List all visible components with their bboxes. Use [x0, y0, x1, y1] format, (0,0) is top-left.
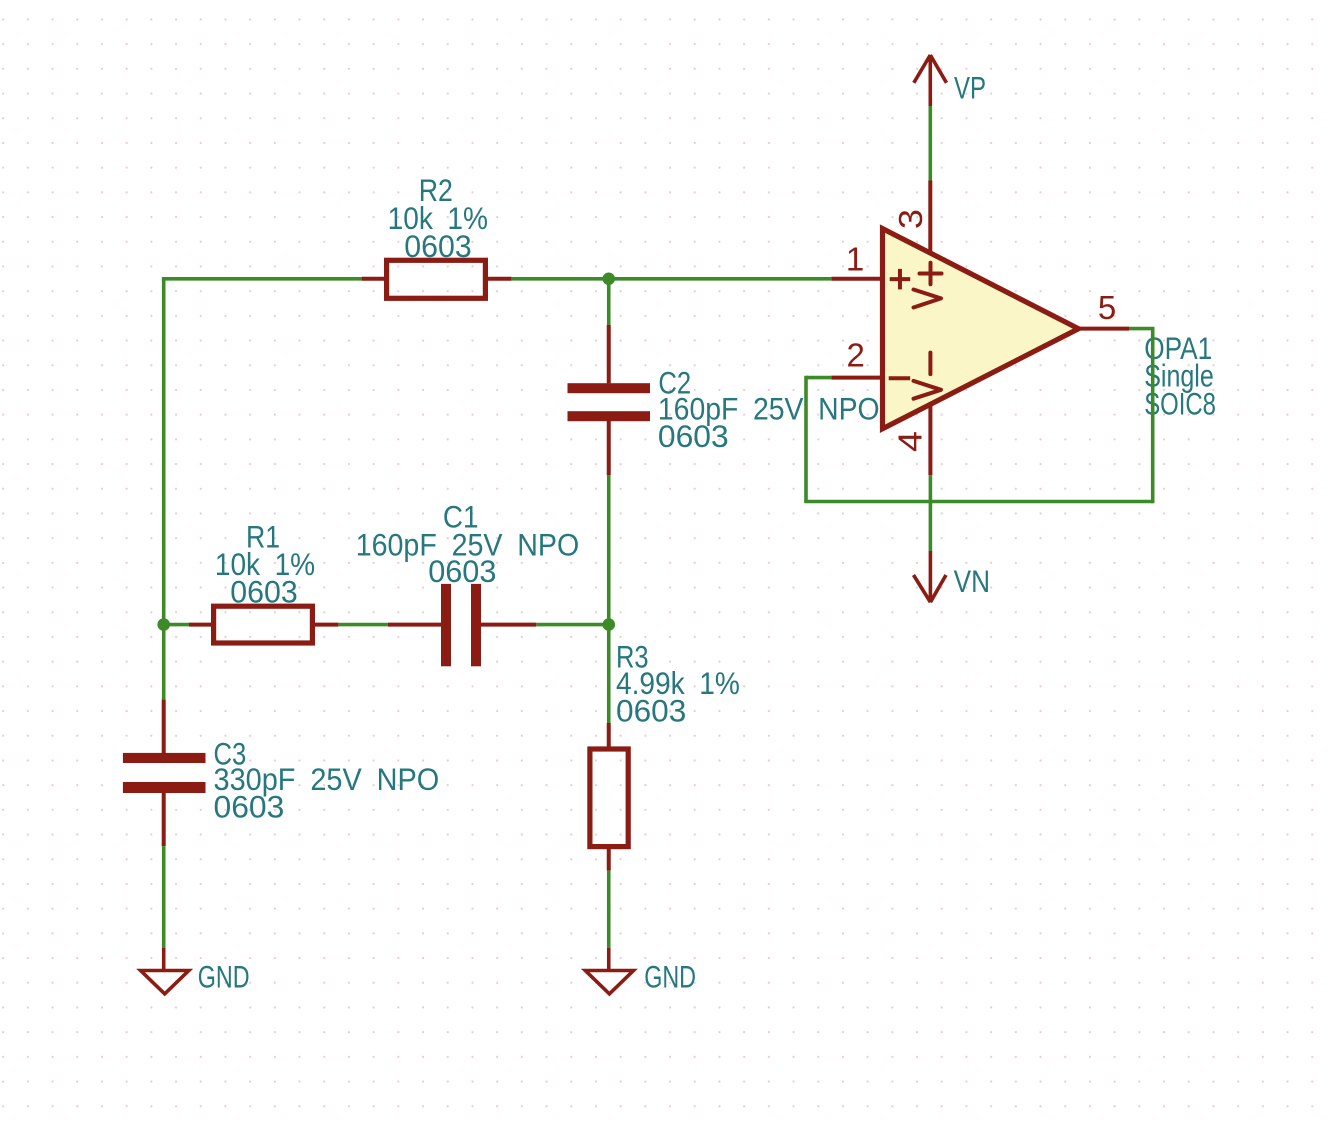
op-amp U1 minus input mark	[889, 376, 911, 380]
wire junction to C2 top	[607, 279, 611, 325]
wire R1 right to C1 left	[338, 623, 388, 627]
op-amp U1 pin 2 stub	[831, 376, 883, 380]
svg-text:GND: GND	[644, 958, 696, 994]
svg-text:GND: GND	[198, 958, 250, 994]
op-amp U1 V+ pin name	[914, 263, 942, 308]
op-amp U1 plus input mark	[890, 269, 911, 290]
power symbol VP	[914, 55, 947, 106]
op-amp U1 V- pin name	[914, 353, 942, 399]
svg-text:VP: VP	[954, 70, 986, 106]
wire junction to R1 left	[164, 623, 189, 627]
svg-text:SOIC8: SOIC8	[1144, 386, 1216, 422]
resistor R3	[590, 723, 628, 871]
op-amp U1 pin 1 stub	[831, 277, 883, 281]
power symbol VN	[914, 551, 947, 602]
capacitor C1	[441, 584, 481, 666]
resistor R2	[362, 260, 512, 298]
svg-text:1: 1	[846, 241, 864, 278]
capacitor C3	[123, 753, 206, 793]
wire C3 bottom to ground	[162, 846, 166, 948]
svg-text:0603: 0603	[214, 789, 285, 825]
op-amp U1 pin 3 stub	[928, 181, 932, 255]
junction middle node	[602, 618, 615, 631]
ground symbol left	[141, 948, 189, 994]
svg-text:4: 4	[892, 431, 929, 452]
wire VP to op-amp pin 3	[928, 106, 932, 181]
svg-text:5: 5	[1098, 289, 1116, 326]
ground symbol right	[585, 948, 633, 994]
svg-text:2: 2	[846, 337, 864, 374]
wire C1 right to junction	[536, 623, 608, 627]
wire C2 bottom to R3 top	[607, 475, 611, 723]
wire op-amp pin 4 to VN	[929, 475, 933, 551]
wire top horizontal left of R2	[162, 277, 362, 281]
junction left node	[157, 618, 170, 631]
resistor R1	[189, 606, 338, 643]
svg-text:0603: 0603	[658, 418, 729, 454]
wire feedback left vertical	[804, 376, 808, 502]
op-amp U1 pin 5 stub	[1079, 327, 1130, 331]
op-amp U1 pin 4 stub	[928, 404, 932, 475]
svg-text:0603: 0603	[428, 553, 496, 589]
svg-text:0603: 0603	[616, 692, 686, 728]
wire output to feedback	[1129, 327, 1155, 331]
wire feedback bottom horizontal	[804, 500, 1152, 504]
wire R3 bottom to ground	[607, 871, 611, 948]
wire feedback right vertical	[1151, 329, 1155, 504]
wire top horizontal right of R2 to op-amp pin 1	[511, 277, 831, 281]
wire left vertical	[162, 279, 166, 700]
svg-text:VN: VN	[954, 563, 990, 599]
capacitor C2	[568, 383, 651, 421]
svg-text:3: 3	[892, 209, 929, 229]
wire op-amp pin 2 stub horizontal	[806, 376, 831, 380]
op-amp U1 body	[883, 229, 1079, 429]
junction on top wire	[602, 273, 615, 286]
